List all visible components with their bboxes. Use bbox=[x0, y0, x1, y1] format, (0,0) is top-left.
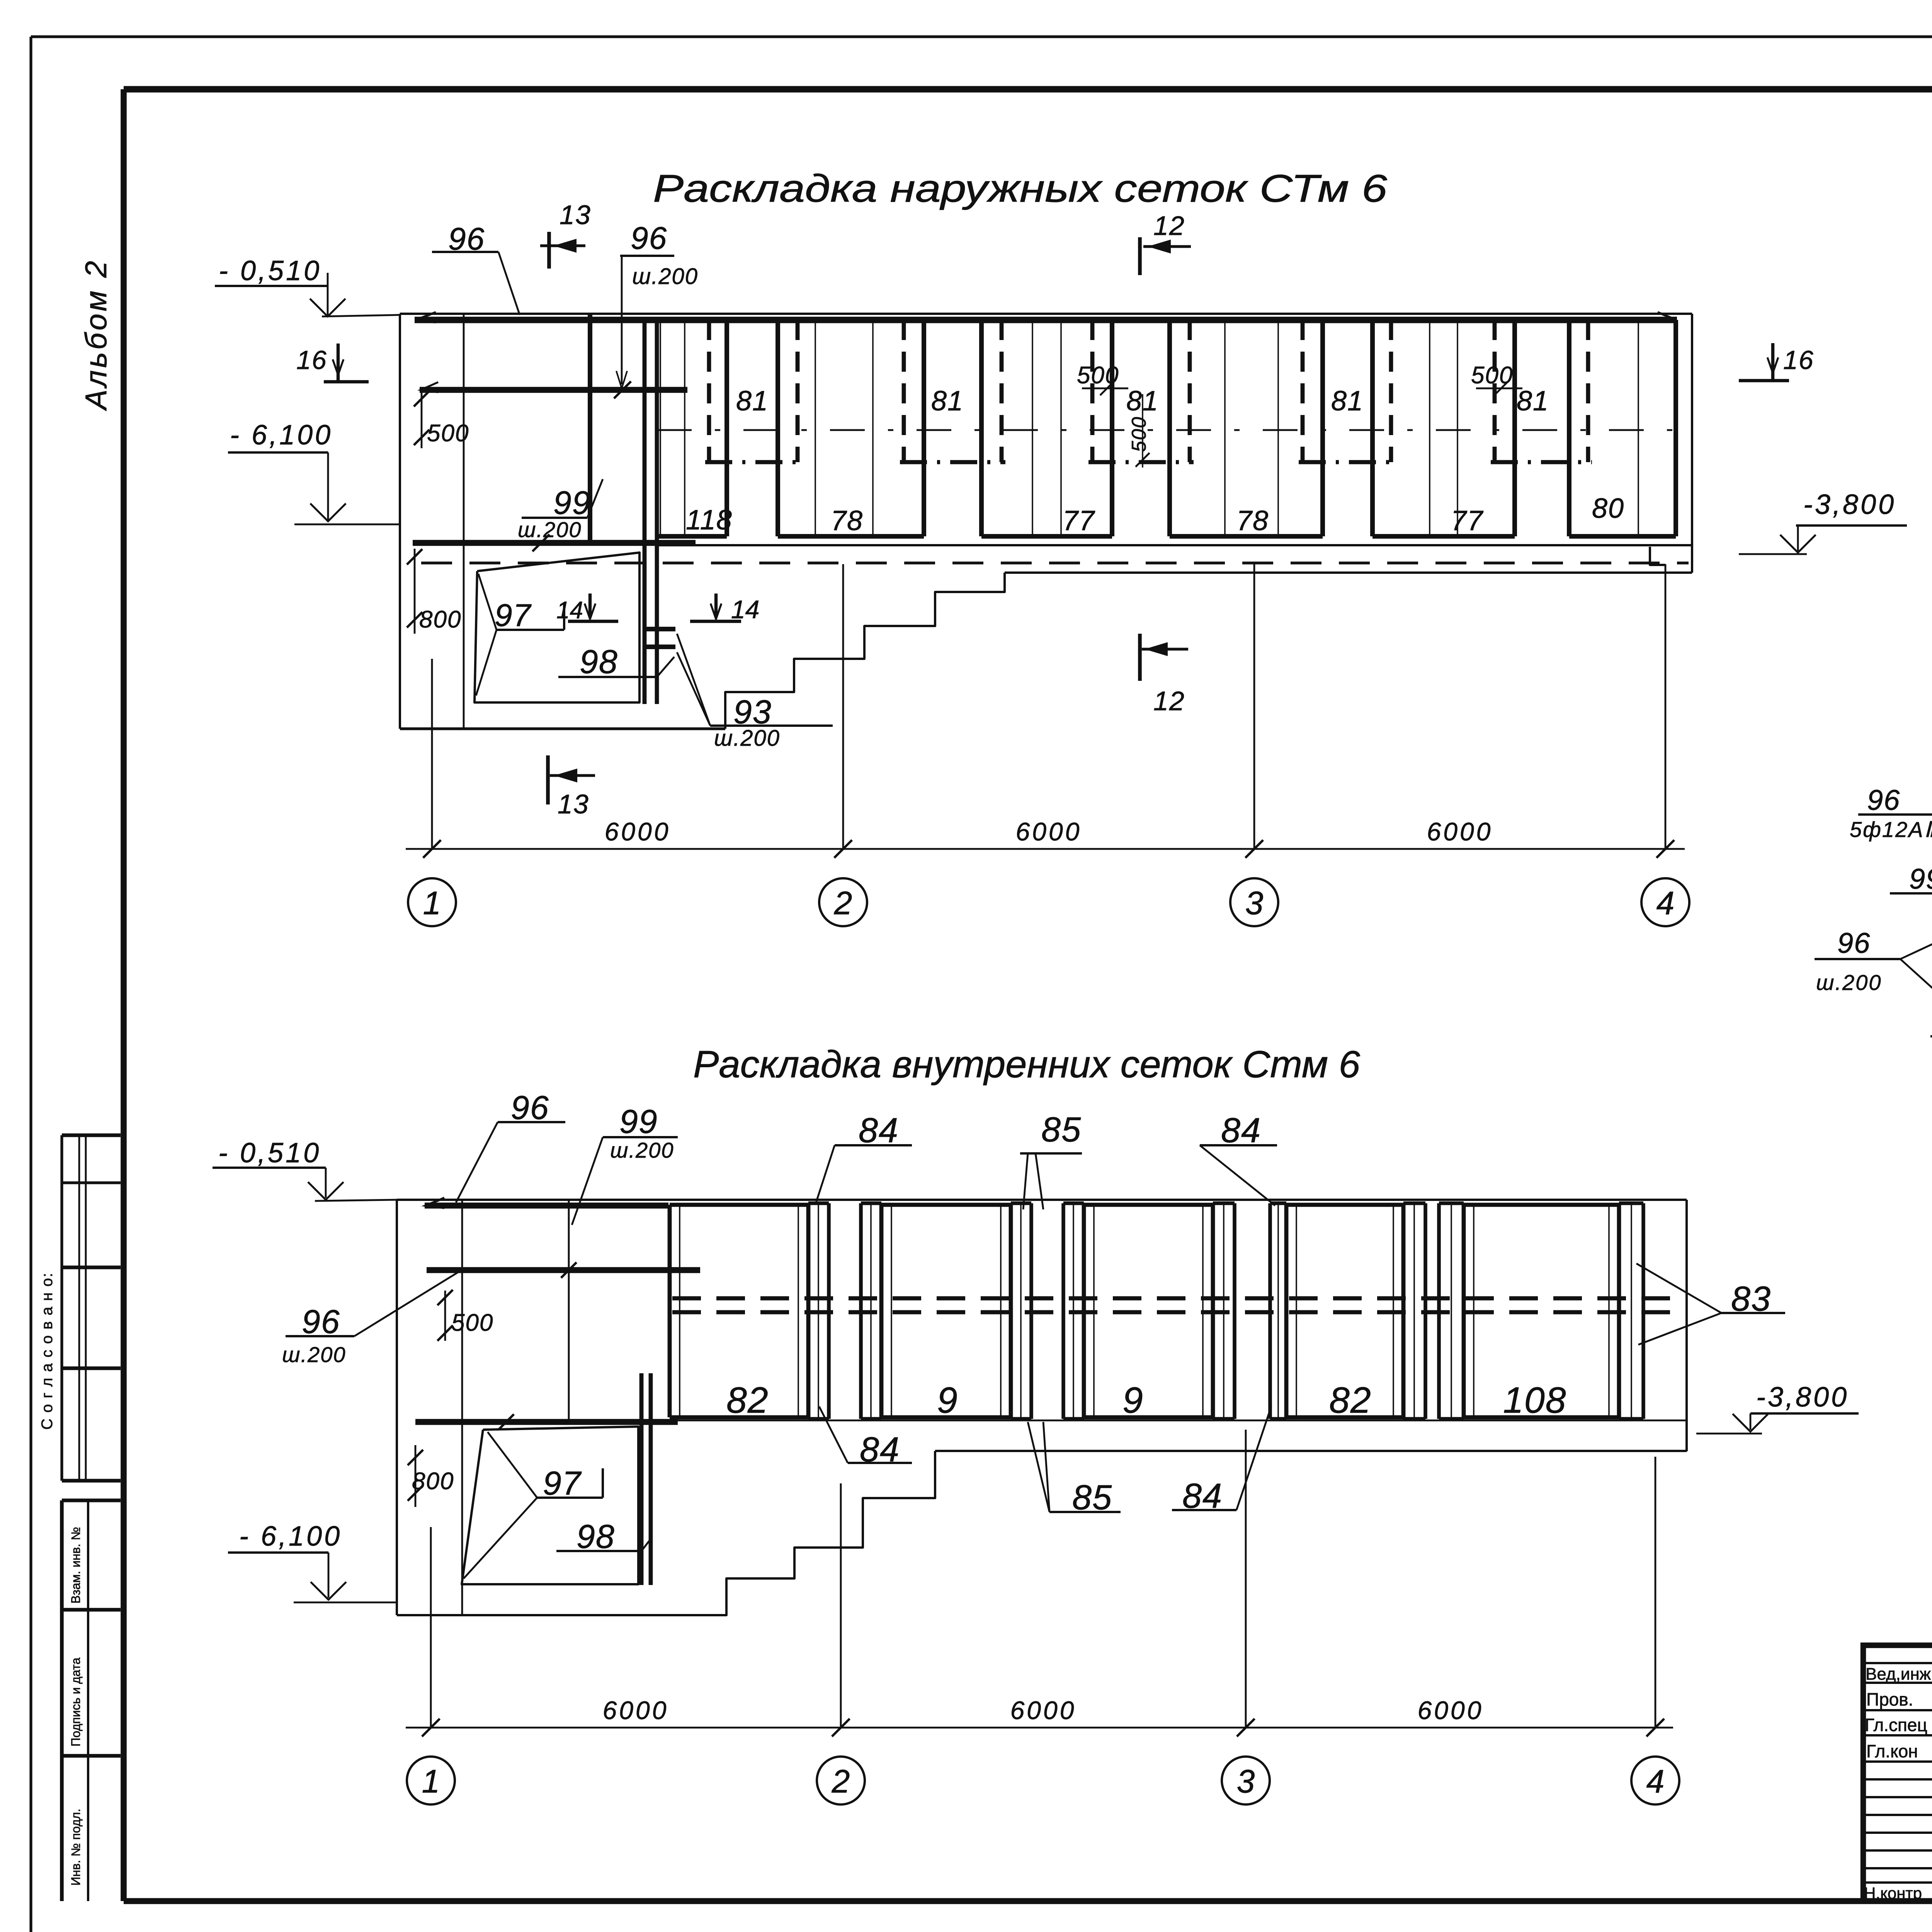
svg-text:16: 16 bbox=[296, 345, 327, 375]
svg-text:99: 99 bbox=[553, 485, 591, 521]
section mark 14 right bbox=[690, 594, 759, 624]
svg-text:99: 99 bbox=[619, 1103, 658, 1140]
level mark -0,510 top drawing bbox=[215, 255, 400, 316]
dim 500 at 5th bay top band bbox=[1471, 362, 1522, 395]
dim 500 bottom drawing bbox=[437, 1290, 493, 1341]
label 99 ш.200 bottom drawing bbox=[572, 1103, 678, 1225]
label 97 with leaders bbox=[476, 574, 564, 696]
left attribute table (Взам/Подпись/Инв) bbox=[62, 1500, 121, 1901]
svg-text:97: 97 bbox=[543, 1465, 582, 1502]
svg-text:ш.200: ш.200 bbox=[714, 726, 780, 751]
solid mesh verticals (118/78/77/78/77/80) bbox=[657, 320, 1676, 536]
svg-text:Гл.спец: Гл.спец bbox=[1865, 1715, 1927, 1735]
svg-text:6000: 6000 bbox=[605, 817, 671, 846]
svg-text:Раскладка внутренних сеток: Раскладка внутренних сеток Стм 6 bbox=[693, 1043, 1361, 1085]
dimension line 6000x3 top drawing bbox=[406, 817, 1685, 858]
svg-text:6000: 6000 bbox=[1016, 817, 1082, 846]
section mark 16 right bbox=[1739, 343, 1814, 381]
top band outer contour bbox=[400, 314, 1692, 729]
svg-text:96: 96 bbox=[1837, 927, 1871, 959]
svg-text:77: 77 bbox=[1451, 505, 1484, 536]
svg-text:16: 16 bbox=[1783, 345, 1814, 375]
dim 800 bottom drawing bbox=[408, 1445, 454, 1507]
section mark 12 top bbox=[1140, 211, 1191, 275]
svg-text:-3,800: -3,800 bbox=[1803, 489, 1896, 520]
section mark 13 top bbox=[540, 200, 591, 269]
svg-text:96: 96 bbox=[302, 1303, 340, 1340]
label 97 bottom with leaders bbox=[464, 1432, 603, 1578]
lower-left region contour bbox=[400, 573, 1005, 729]
mesh 97 trapezoid bottom drawing bbox=[462, 1427, 638, 1584]
double dashed lines bottom band bbox=[672, 1298, 1685, 1312]
svg-text:14: 14 bbox=[556, 597, 583, 624]
thin vertical at left bay bbox=[463, 314, 465, 729]
svg-text:Вед,инж: Вед,инж bbox=[1866, 1665, 1931, 1684]
svg-text:81: 81 bbox=[736, 386, 769, 417]
footing bottom edge right part bbox=[1005, 571, 1692, 574]
bottom band mesh rectangles 82/9/9/82/108 bbox=[670, 1205, 1619, 1417]
svg-text:3: 3 bbox=[1245, 885, 1264, 921]
signature table rows bbox=[1863, 1663, 1932, 1883]
svg-text:96: 96 bbox=[1867, 784, 1900, 816]
axis circles 1-4 bottom drawing bbox=[407, 1757, 1679, 1804]
svg-text:ш.200: ш.200 bbox=[610, 1138, 674, 1162]
svg-text:500: 500 bbox=[451, 1310, 493, 1336]
svg-text:6000: 6000 bbox=[1010, 1696, 1077, 1725]
svg-text:- 6,100: - 6,100 bbox=[239, 1521, 342, 1552]
svg-text:85: 85 bbox=[1041, 1111, 1082, 1149]
svg-text:82: 82 bbox=[1329, 1380, 1372, 1421]
svg-text:98: 98 bbox=[577, 1518, 615, 1555]
mesh 98 tick bars on double vertical bbox=[645, 629, 675, 647]
svg-text:500: 500 bbox=[427, 420, 469, 447]
svg-text:Раскладка наружных сеток СТ: Раскладка наружных сеток СТм 6 bbox=[653, 167, 1387, 210]
svg-text:6000: 6000 bbox=[1418, 1696, 1484, 1725]
level mark -0,510 bottom drawing bbox=[213, 1138, 397, 1201]
label 96 ш.200 left bottom drawing bbox=[282, 1272, 459, 1367]
svg-text:ш.200: ш.200 bbox=[518, 517, 582, 542]
svg-text:- 6,100: - 6,100 bbox=[230, 420, 333, 451]
svg-text:97: 97 bbox=[495, 598, 532, 633]
svg-text:6000: 6000 bbox=[1427, 817, 1493, 846]
label 83 with leaders bbox=[1636, 1264, 1785, 1345]
svg-text:99: 99 bbox=[1909, 863, 1932, 895]
svg-text:13: 13 bbox=[560, 200, 591, 230]
svg-text:Н.контр: Н.контр bbox=[1864, 1884, 1922, 1902]
center dash-dot line of band bbox=[657, 429, 1677, 431]
svg-text:14: 14 bbox=[731, 595, 759, 624]
thin verticals left bay bottom drawing bbox=[462, 1200, 569, 1615]
label 96 ш.200 section 13-13 bbox=[1815, 920, 1932, 1036]
mesh 96 bottom drawing: top bar bbox=[425, 1198, 668, 1208]
level mark -3,800 bottom drawing bbox=[1696, 1382, 1859, 1434]
svg-text:78: 78 bbox=[1236, 505, 1269, 536]
thin overlap verticals bbox=[660, 320, 1638, 536]
level mark -3,800 right of top band bbox=[1739, 489, 1907, 554]
svg-text:500: 500 bbox=[1077, 362, 1119, 389]
svg-text:12: 12 bbox=[1153, 211, 1185, 241]
svg-text:4: 4 bbox=[1656, 885, 1675, 921]
svg-text:500: 500 bbox=[1471, 362, 1513, 389]
svg-text:9: 9 bbox=[937, 1380, 958, 1421]
section 13-13 footing steps bbox=[1930, 1036, 1932, 1296]
label 98 with leader bbox=[558, 643, 674, 680]
svg-text:Инв. № подл.: Инв. № подл. bbox=[69, 1809, 83, 1886]
svg-text:108: 108 bbox=[1503, 1380, 1567, 1421]
dim 800 top drawing bbox=[407, 549, 461, 634]
mesh 96: second horizontal bar bbox=[420, 381, 687, 398]
axis lines top drawing bbox=[432, 564, 1665, 849]
svg-text:Гл.кон: Гл.кон bbox=[1866, 1741, 1918, 1761]
label 99 section 13-13 bbox=[1890, 863, 1932, 895]
labels 84/85/84 below bottom band bbox=[819, 1406, 912, 1469]
label 96 5ф12АШ section 13-13 bbox=[1850, 784, 1932, 855]
mesh 96: top horizontal bar bbox=[415, 312, 1677, 322]
svg-text:Пров.: Пров. bbox=[1866, 1689, 1913, 1709]
section mark 14 left bbox=[556, 594, 618, 624]
joint strip meshes 84/85 bbox=[808, 1203, 1464, 1419]
level mark -6,100 bottom drawing bbox=[228, 1521, 397, 1602]
mesh 96 bottom drawing: low bar bbox=[415, 1414, 678, 1430]
right end strip mesh 83 bbox=[1619, 1203, 1643, 1419]
band footing dashed line bbox=[421, 561, 1689, 564]
svg-text:Альбом 2: Альбом 2 bbox=[79, 259, 113, 411]
svg-text:1: 1 bbox=[423, 885, 441, 921]
svg-text:81: 81 bbox=[1331, 386, 1364, 417]
label 96 top-left with leader bbox=[432, 221, 520, 315]
svg-text:3: 3 bbox=[1237, 1763, 1255, 1799]
level mark -6,100 top drawing bbox=[228, 420, 400, 524]
footing line bottom drawing bbox=[935, 1450, 1687, 1452]
svg-text:1: 1 bbox=[422, 1763, 440, 1799]
svg-text:82: 82 bbox=[726, 1380, 769, 1421]
svg-text:С о г л а с о в а н о:: С о г л а с о в а н о: bbox=[39, 1272, 56, 1430]
svg-text:12: 12 bbox=[1153, 686, 1185, 716]
signature table labels bbox=[1864, 1663, 1932, 1903]
axis circles 1-4 top drawing bbox=[408, 878, 1689, 926]
dimension line 6000x3 bottom drawing bbox=[406, 1696, 1673, 1736]
section mark 12 bottom bbox=[1140, 634, 1188, 716]
label 96 / ш.200 with leader to second bar bbox=[616, 221, 698, 388]
dim 500 at axis3 top band bbox=[1077, 362, 1150, 468]
svg-text:- 0,510: - 0,510 bbox=[219, 255, 321, 286]
svg-text:2: 2 bbox=[832, 1763, 850, 1799]
svg-text:Подпись и дата: Подпись и дата bbox=[69, 1658, 83, 1747]
svg-text:96: 96 bbox=[631, 221, 667, 256]
label 98 bottom with leader bbox=[556, 1518, 649, 1555]
mesh 99 right edge thick vertical bbox=[588, 314, 592, 543]
mesh 96 lower horizontal bar bbox=[413, 534, 696, 551]
svg-text:Взам. инв. №: Взам. инв. № bbox=[69, 1527, 83, 1604]
svg-text:78: 78 bbox=[831, 505, 863, 536]
svg-text:ш.200: ш.200 bbox=[282, 1342, 346, 1367]
labels 84/85/84 above bottom band bbox=[815, 1111, 912, 1205]
dim 500 top drawing bbox=[414, 391, 469, 448]
section mark 13 bottom bbox=[548, 755, 595, 819]
footing right corner mark bbox=[1650, 547, 1665, 565]
svg-text:4: 4 bbox=[1646, 1763, 1665, 1799]
mesh 96 bottom drawing: mid bar bbox=[427, 1262, 700, 1278]
svg-text:- 0,510: - 0,510 bbox=[218, 1138, 321, 1168]
svg-text:9: 9 bbox=[1122, 1380, 1144, 1421]
svg-text:5ф12АⅢ: 5ф12АⅢ bbox=[1850, 817, 1932, 842]
svg-text:118: 118 bbox=[686, 505, 733, 536]
svg-text:98: 98 bbox=[580, 643, 618, 680]
svg-text:13: 13 bbox=[558, 789, 589, 819]
label 96 with leader bottom drawing top bbox=[456, 1089, 565, 1202]
svg-text:81: 81 bbox=[1517, 386, 1549, 417]
main title block frame bbox=[1863, 1645, 1932, 1901]
mesh 97 trapezoid outline bbox=[474, 553, 639, 702]
svg-text:ш.200: ш.200 bbox=[1816, 970, 1882, 995]
svg-text:800: 800 bbox=[412, 1468, 454, 1495]
svg-text:81: 81 bbox=[931, 386, 964, 417]
bottom band outer contour bbox=[397, 1200, 1687, 1615]
wall double vertical (column joint) bbox=[645, 320, 657, 704]
label 93 with leaders bbox=[677, 634, 833, 751]
svg-text:6000: 6000 bbox=[603, 1696, 669, 1725]
dashed meshes 81 verticals and bottoms bbox=[705, 320, 1592, 462]
svg-text:500: 500 bbox=[1128, 416, 1150, 452]
svg-text:-3,800: -3,800 bbox=[1756, 1382, 1849, 1413]
section mark 16 left bbox=[296, 344, 369, 382]
svg-text:800: 800 bbox=[419, 606, 461, 633]
label 99 / ш.200 with leader bbox=[518, 479, 603, 542]
svg-text:ш.200: ш.200 bbox=[632, 264, 698, 289]
svg-text:77: 77 bbox=[1063, 505, 1095, 536]
axis lines bottom drawing bbox=[431, 1430, 1655, 1728]
wall double vertical bottom drawing bbox=[641, 1373, 651, 1585]
svg-text:80: 80 bbox=[1592, 493, 1624, 524]
svg-text:96: 96 bbox=[511, 1089, 549, 1126]
svg-text:2: 2 bbox=[834, 885, 852, 921]
steps bottom drawing bbox=[397, 1451, 935, 1615]
left agreement table (Согласовано) bbox=[62, 1135, 121, 1481]
